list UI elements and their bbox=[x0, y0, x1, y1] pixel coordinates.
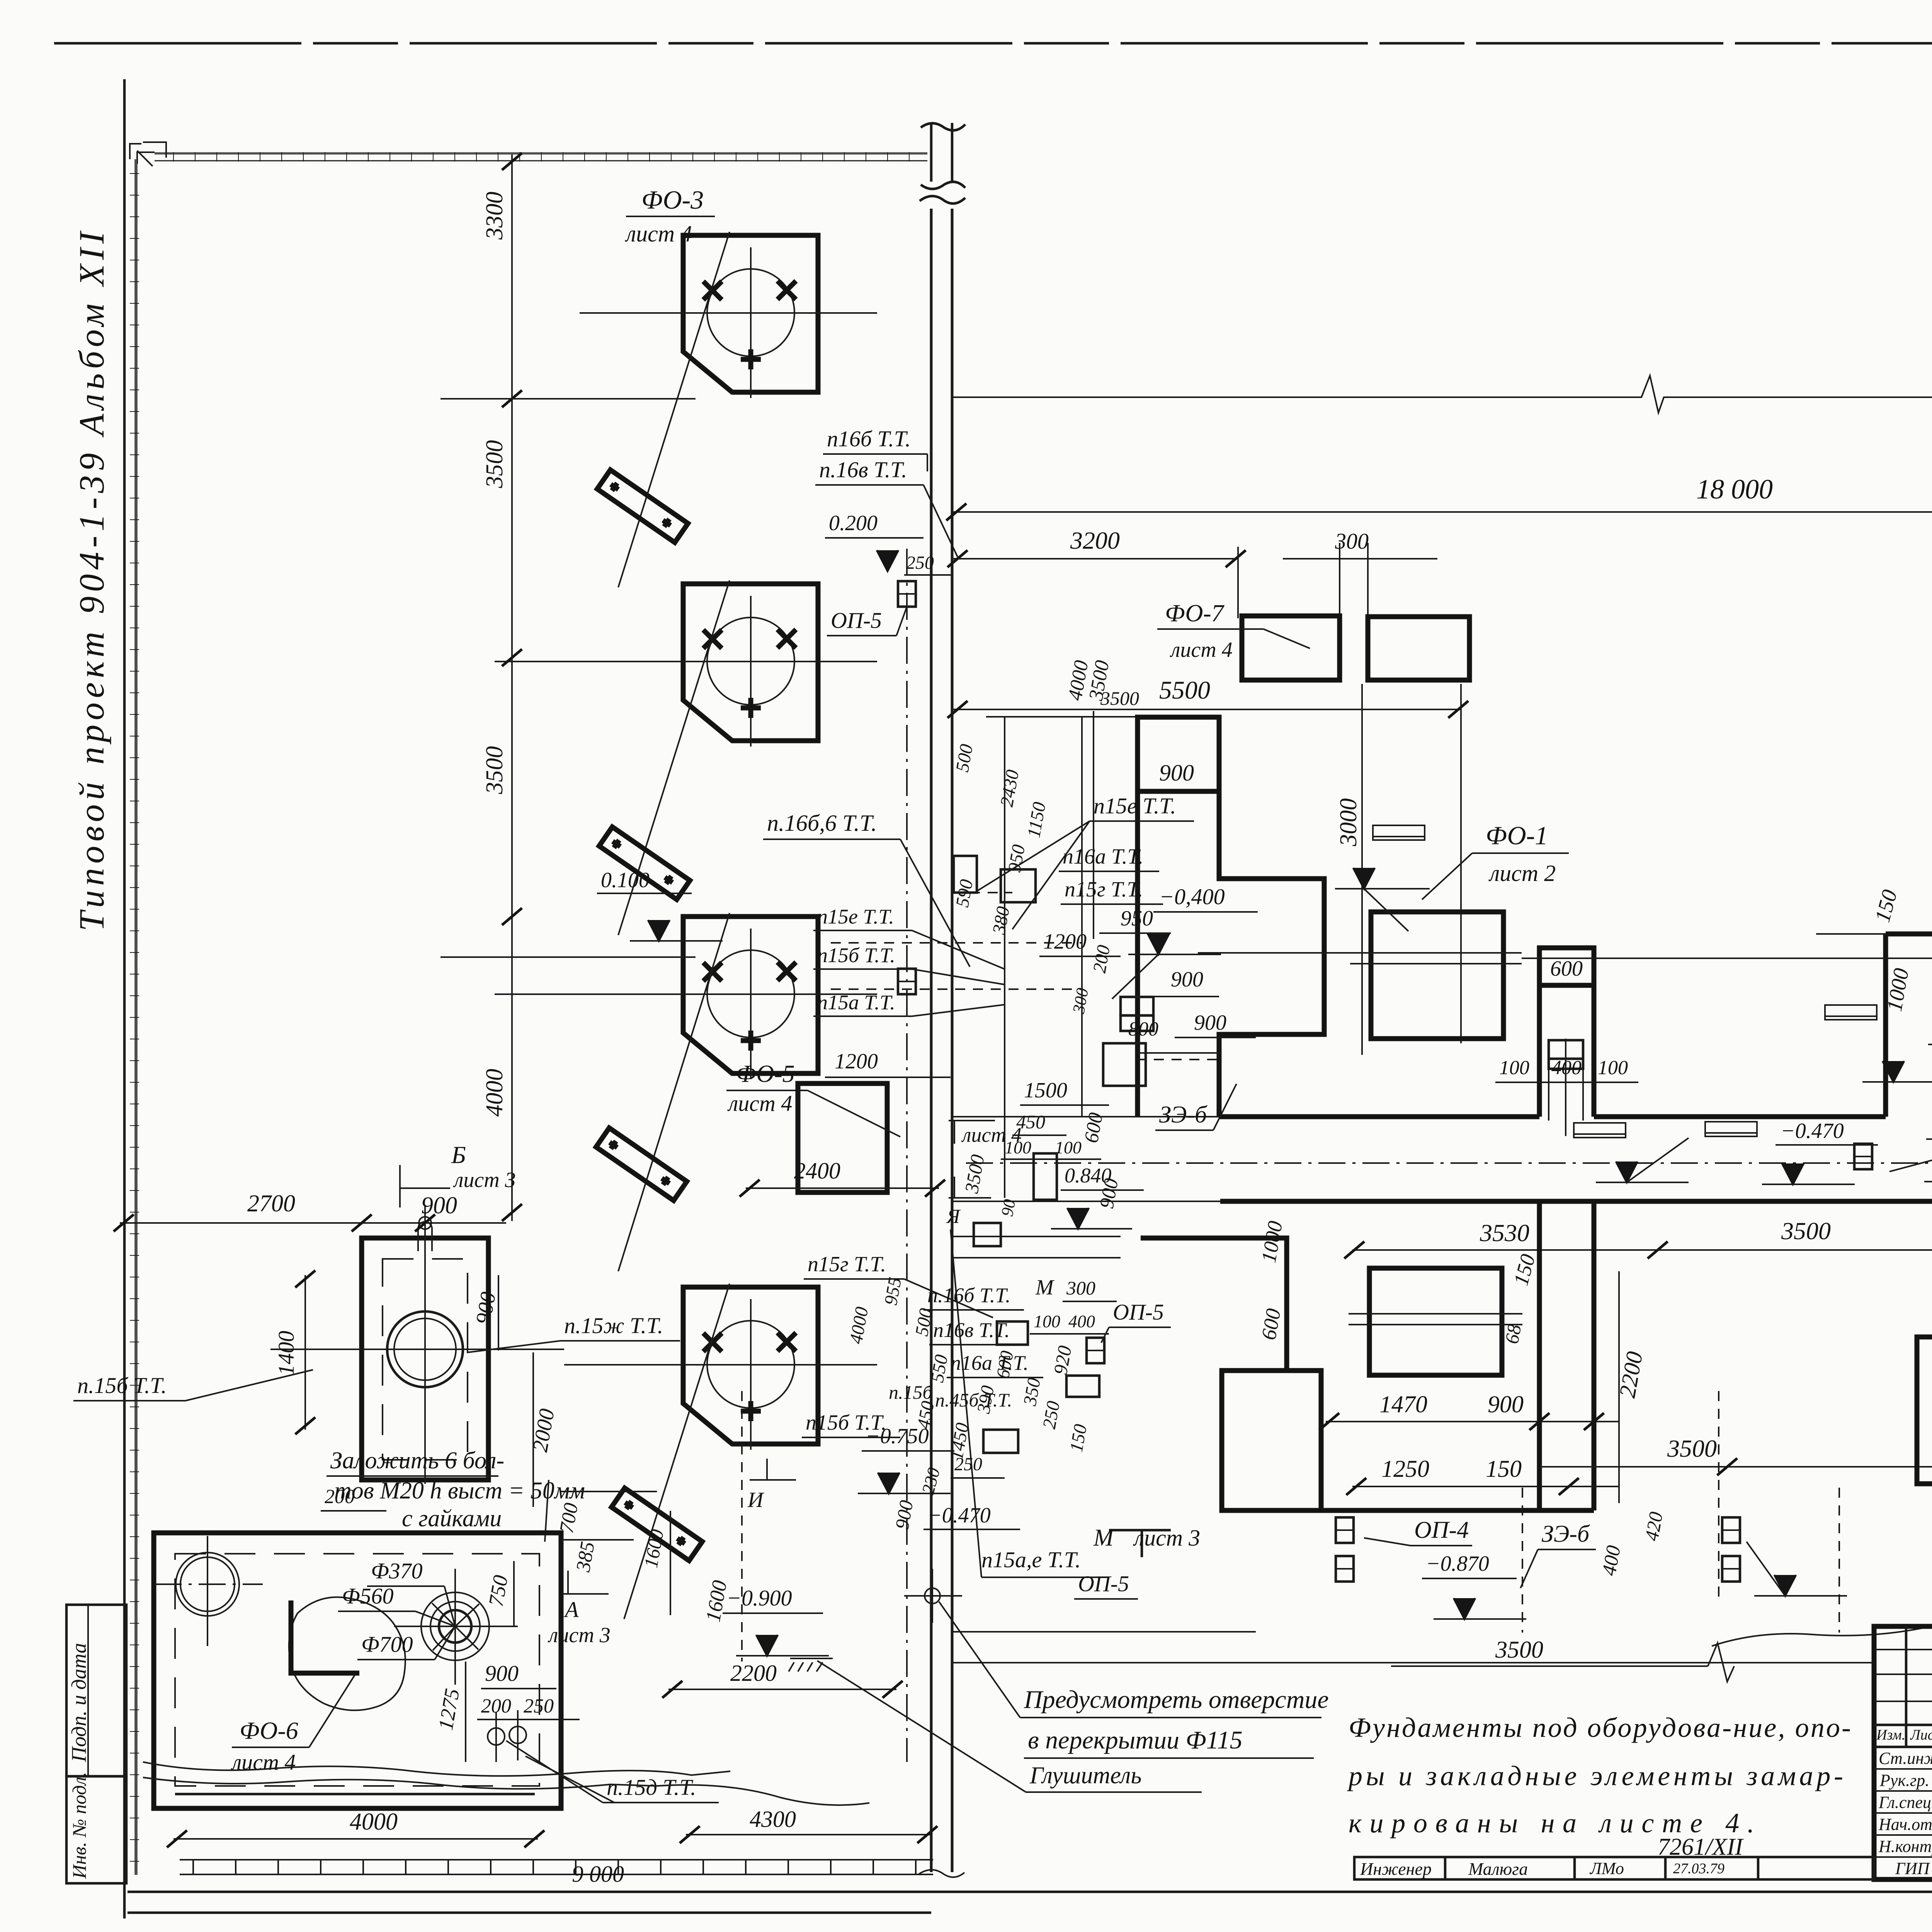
svg-text:ЛМо: ЛМо bbox=[1589, 1859, 1624, 1878]
corridor bottom thick line bbox=[1220, 1199, 1932, 1204]
central wall bottom squiggle bbox=[919, 1870, 964, 1877]
signature table outer bbox=[1874, 1626, 1932, 1879]
svg-text:−0.900: −0.900 bbox=[726, 1585, 792, 1611]
svg-text:400: 400 bbox=[1068, 1311, 1095, 1331]
svg-text:100: 100 bbox=[1034, 1311, 1060, 1331]
bolt pocket in block B bbox=[1549, 1040, 1583, 1069]
foundation rect bbox=[362, 1238, 488, 1480]
dim 1400 left bbox=[304, 1275, 306, 1430]
extension lines left pair bbox=[1339, 543, 1340, 618]
svg-text:4300: 4300 bbox=[750, 1806, 796, 1832]
svg-text:Подп. и дата: Подп. и дата bbox=[67, 1643, 90, 1762]
svg-text:2200: 2200 bbox=[730, 1660, 777, 1686]
svg-text:1250: 1250 bbox=[1381, 1456, 1429, 1482]
small circle hole F115 bbox=[925, 1588, 940, 1604]
header row bottom bbox=[1874, 1746, 1932, 1748]
neck top line bbox=[1886, 932, 1932, 937]
svg-text:−0.870: −0.870 bbox=[1426, 1552, 1489, 1576]
central wall left line bbox=[930, 209, 933, 1872]
dashed verticals bottom bbox=[1522, 1488, 1523, 1633]
М лист 3 bottom bbox=[1109, 1530, 1171, 1557]
lower left band lines bbox=[952, 1631, 1256, 1633]
svg-text:Ф560: Ф560 bbox=[342, 1583, 394, 1609]
svg-text:М: М bbox=[1093, 1525, 1115, 1551]
small rect in band bbox=[1001, 869, 1036, 902]
wall axis dash-dot line bbox=[906, 549, 908, 1762]
svg-text:п15е Т.Т.: п15е Т.Т. bbox=[817, 905, 894, 928]
svg-text:ФО-1: ФО-1 bbox=[1486, 821, 1548, 850]
tall block A outline bbox=[1138, 717, 1324, 1117]
svg-text:250: 250 bbox=[524, 1695, 554, 1717]
FO-1 centerlines bbox=[1198, 952, 1522, 954]
svg-text:250: 250 bbox=[954, 1454, 982, 1475]
anchor plate 4 bbox=[612, 1488, 702, 1561]
svg-text:в перекрытии Ф115: в перекрытии Ф115 bbox=[1028, 1726, 1243, 1754]
central wall break squiggle bbox=[920, 196, 965, 203]
svg-text:−0.750: −0.750 bbox=[866, 1424, 929, 1448]
dashed strip left half bbox=[1136, 1052, 1220, 1054]
svg-text:п15г Т.Т.: п15г Т.Т. bbox=[1065, 878, 1143, 901]
thin lines linking wall band to plan bbox=[952, 1116, 1219, 1117]
dim 2700 900 bbox=[120, 1222, 506, 1224]
svg-text:п15г Т.Т.: п15г Т.Т. bbox=[808, 1252, 886, 1276]
svg-text:Б: Б bbox=[451, 1141, 466, 1168]
svg-text:100: 100 bbox=[1055, 1138, 1082, 1157]
svg-text:900: 900 bbox=[485, 1661, 519, 1686]
svg-text:800: 800 bbox=[1128, 1018, 1158, 1040]
svg-text:п.16б Т.Т.: п.16б Т.Т. bbox=[927, 1284, 1010, 1307]
svg-text:150: 150 bbox=[1486, 1456, 1522, 1482]
900 dim lower inside bbox=[1124, 996, 1219, 997]
svg-text:100: 100 bbox=[1598, 1057, 1628, 1079]
svg-text:с гайками: с гайками bbox=[402, 1505, 502, 1532]
svg-text:п15а,е Т.Т.: п15а,е Т.Т. bbox=[981, 1547, 1081, 1572]
svg-text:5500: 5500 bbox=[1159, 676, 1210, 704]
svg-text:лист 4: лист 4 bbox=[625, 221, 692, 247]
svg-text:И: И bbox=[747, 1488, 765, 1512]
lower mirror FO rect bbox=[1369, 1268, 1502, 1375]
central wall right line bbox=[951, 209, 954, 1872]
svg-text:Инженер: Инженер bbox=[1360, 1859, 1432, 1879]
OP-5 square mid corridor bbox=[1854, 1144, 1872, 1169]
svg-text:п16а Т.Т.: п16а Т.Т. bbox=[1063, 845, 1143, 869]
svg-text:9 000: 9 000 bbox=[572, 1861, 624, 1887]
svg-text:ФО-3: ФО-3 bbox=[641, 185, 704, 214]
300 dim left bbox=[1283, 558, 1437, 560]
A list3 mark bbox=[562, 1571, 609, 1594]
dim 900 right vertical bbox=[498, 1275, 499, 1350]
svg-text:68: 68 bbox=[1501, 1323, 1526, 1345]
svg-text:п.15ж Т.Т.: п.15ж Т.Т. bbox=[564, 1313, 663, 1338]
anchor plate 1 bbox=[597, 470, 688, 543]
centerlines bbox=[270, 1349, 564, 1350]
sidebar box Подп. и дата bbox=[66, 1605, 126, 1776]
small bolt slot bbox=[1034, 1153, 1057, 1200]
svg-text:100: 100 bbox=[1499, 1057, 1529, 1079]
pentagon foundation #4 bbox=[564, 1284, 877, 1619]
svg-text:ОП-5: ОП-5 bbox=[831, 608, 882, 633]
central lower block lower bbox=[1917, 1337, 1932, 1484]
tall narrow block B bbox=[1539, 948, 1594, 1117]
svg-text:3500: 3500 bbox=[1667, 1435, 1717, 1462]
dashed axis lines crossing wall bbox=[831, 942, 1082, 944]
plate near block B top bbox=[1373, 825, 1425, 840]
3200 dim left bbox=[952, 558, 1238, 560]
svg-text:900: 900 bbox=[1194, 1011, 1226, 1035]
bolt on wall axis 2 bbox=[898, 969, 916, 994]
svg-text:ФО-6: ФО-6 bbox=[240, 1717, 298, 1744]
svg-text:ОП-5: ОП-5 bbox=[1113, 1299, 1164, 1325]
svg-text:3300: 3300 bbox=[481, 192, 508, 240]
bottom frame line left part bbox=[128, 1891, 1932, 1893]
svg-text:п.16б,6 Т.Т.: п.16б,6 Т.Т. bbox=[767, 810, 877, 836]
bottom second line left bbox=[128, 1912, 931, 1914]
anchor plate 2 bbox=[599, 827, 690, 900]
svg-text:Рук.гр.: Рук.гр. bbox=[1879, 1771, 1929, 1790]
lower band bottom thick bbox=[1222, 1508, 1539, 1513]
svg-text:лист 2: лист 2 bbox=[1488, 861, 1556, 886]
svg-text:300: 300 bbox=[1066, 1277, 1095, 1299]
bolt pair mid bbox=[1121, 997, 1153, 1015]
svg-text:лист 3: лист 3 bbox=[453, 1168, 516, 1192]
svg-text:3530: 3530 bbox=[1480, 1219, 1529, 1247]
svg-text:1200: 1200 bbox=[835, 1049, 878, 1073]
svg-text:27.03.79: 27.03.79 bbox=[1673, 1861, 1725, 1877]
thin top line bbox=[986, 716, 1221, 718]
outer square bbox=[154, 1533, 561, 1808]
svg-text:4000: 4000 bbox=[350, 1809, 398, 1835]
3500 lower dim bbox=[1539, 1466, 1932, 1468]
extra ext lines near wall band bbox=[1093, 711, 1094, 939]
svg-text:−0.470: −0.470 bbox=[1781, 1119, 1844, 1143]
svg-text:п16б Т.Т.: п16б Т.Т. bbox=[827, 426, 911, 451]
svg-text:900: 900 bbox=[1159, 760, 1194, 786]
svg-text:450: 450 bbox=[1016, 1111, 1045, 1133]
pentagon foundation #3 bbox=[495, 913, 877, 1271]
svg-text:п.15б Т.Т.: п.15б Т.Т. bbox=[77, 1373, 167, 1398]
inner dashed square bbox=[175, 1554, 539, 1786]
left step lines bbox=[1141, 1238, 1321, 1510]
corridor axis centerline bbox=[966, 1162, 1932, 1164]
svg-text:Ф700: Ф700 bbox=[361, 1632, 413, 1657]
18000 dimension line bbox=[952, 511, 1932, 513]
svg-text:п.45б Т.Т.: п.45б Т.Т. bbox=[935, 1389, 1012, 1411]
brick strip bottom left bbox=[180, 1859, 933, 1861]
svg-text:2700: 2700 bbox=[247, 1190, 295, 1217]
top-left circle bbox=[176, 1553, 239, 1616]
И mark left bbox=[750, 1459, 796, 1480]
svg-text:ОП-5: ОП-5 bbox=[1078, 1571, 1129, 1596]
axis line at 3300 bbox=[440, 398, 696, 400]
100 400 100 dims bbox=[1495, 1082, 1638, 1083]
Б section mark bbox=[400, 1165, 450, 1207]
svg-text:п.15д Т.Т.: п.15д Т.Т. bbox=[607, 1775, 696, 1800]
4000 dim bbox=[173, 1838, 538, 1840]
plates corridor bbox=[1574, 1123, 1626, 1138]
FO-7 rect left A bbox=[1242, 616, 1340, 680]
engineer strip bbox=[1354, 1857, 1874, 1879]
svg-text:М: М bbox=[1035, 1276, 1055, 1299]
dims 1470 900 bbox=[1326, 1421, 1619, 1422]
ground wavy line right bbox=[1712, 1593, 1932, 1646]
FO-1 big rect bbox=[1371, 912, 1503, 1039]
svg-text:п.15б: п.15б bbox=[889, 1381, 933, 1403]
svg-text:Инв. № подл.: Инв. № подл. bbox=[68, 1772, 90, 1879]
svg-text:3500: 3500 bbox=[1495, 1637, 1543, 1663]
svg-text:0.200: 0.200 bbox=[829, 511, 878, 535]
svg-text:600: 600 bbox=[1550, 957, 1583, 981]
wavy line left bbox=[143, 1762, 730, 1776]
wall corner piece bbox=[130, 144, 155, 164]
svg-text:900: 900 bbox=[1171, 968, 1203, 992]
svg-text:лист 4: лист 4 bbox=[231, 1750, 296, 1775]
svg-text:Изм.: Изм. bbox=[1876, 1727, 1905, 1743]
OP-5 bolt on wall axis bbox=[898, 581, 916, 607]
two small circles bbox=[488, 1728, 505, 1745]
top border dashed line bbox=[54, 42, 1932, 45]
svg-text:3500: 3500 bbox=[481, 746, 508, 794]
lower band small rects near wall bbox=[997, 1321, 1028, 1345]
svg-text:п15а Т.Т.: п15а Т.Т. bbox=[817, 991, 895, 1014]
3500 dims row bbox=[1352, 1249, 1932, 1251]
dashed pair left of wall bbox=[741, 1391, 743, 1662]
irregular blob bbox=[289, 1597, 405, 1710]
svg-text:1470: 1470 bbox=[1379, 1391, 1427, 1418]
bolt slot top bbox=[418, 1222, 432, 1251]
svg-text:ОП-4: ОП-4 bbox=[1414, 1517, 1469, 1543]
svg-text:лист 3: лист 3 bbox=[548, 1623, 611, 1647]
corridor top thick segments bbox=[1219, 1114, 1932, 1119]
svg-text:Нач.отд.: Нач.отд. bbox=[1878, 1815, 1932, 1834]
svg-text:Гл.спец.: Гл.спец. bbox=[1878, 1793, 1932, 1812]
svg-text:лист 4: лист 4 bbox=[727, 1091, 792, 1116]
svg-text:Я: Я bbox=[946, 1206, 961, 1228]
small square mid bbox=[1103, 1043, 1146, 1086]
svg-text:950: 950 bbox=[1121, 906, 1153, 930]
svg-text:А: А bbox=[563, 1597, 579, 1622]
svg-text:1500: 1500 bbox=[1024, 1078, 1067, 1102]
svg-text:900: 900 bbox=[421, 1192, 457, 1219]
svg-text:Ст.инж.: Ст.инж. bbox=[1879, 1749, 1932, 1768]
svg-text:100: 100 bbox=[1005, 1138, 1031, 1157]
svg-text:Ф370: Ф370 bbox=[371, 1558, 423, 1583]
pentagon foundation FO-3 #1 bbox=[580, 232, 877, 587]
sidebar box Инв. № подл. bbox=[66, 1776, 126, 1883]
vertical extension 3000 left bbox=[1361, 684, 1363, 1055]
svg-text:лист 3: лист 3 bbox=[1133, 1525, 1200, 1551]
svg-text:Заложить 6 бол-: Заложить 6 бол- bbox=[330, 1447, 504, 1474]
bolt circle group bbox=[421, 1592, 489, 1660]
svg-text:ФО-5: ФО-5 bbox=[736, 1060, 795, 1087]
Я mark bbox=[949, 1177, 991, 1198]
svg-text:0.100: 0.100 bbox=[601, 868, 650, 892]
top exterior wall (hatched) bbox=[155, 152, 927, 162]
svg-text:Глушитель: Глушитель bbox=[1029, 1762, 1142, 1789]
central wall column symbol at top bbox=[921, 123, 965, 189]
svg-text:18 000: 18 000 bbox=[1696, 474, 1773, 505]
svg-text:1400: 1400 bbox=[274, 1331, 299, 1376]
svg-text:4000: 4000 bbox=[481, 1069, 508, 1117]
svg-text:ФО-7: ФО-7 bbox=[1165, 599, 1225, 627]
900 dim inside block A bbox=[1138, 789, 1219, 794]
svg-text:−0.470: −0.470 bbox=[927, 1503, 991, 1527]
thick L inside blob bbox=[291, 1600, 359, 1673]
svg-text:ЗЭ-б: ЗЭ-б bbox=[1542, 1521, 1590, 1547]
svg-text:ры и закладные элементы за: ры и закладные элементы замар- bbox=[1347, 1760, 1843, 1791]
svg-text:лист 4: лист 4 bbox=[1170, 638, 1233, 662]
svg-text:2400: 2400 bbox=[794, 1158, 840, 1184]
big pipe circle bbox=[387, 1311, 463, 1387]
dims 1250 150 bbox=[1352, 1486, 1619, 1487]
thin row lines top section bbox=[1874, 1649, 1932, 1650]
svg-text:Предусмотреть отверстие: Предусмотреть отверстие bbox=[1024, 1685, 1329, 1714]
svg-text:3500: 3500 bbox=[481, 440, 508, 488]
svg-text:900: 900 bbox=[1488, 1391, 1524, 1418]
svg-text:п.16в Т.Т.: п.16в Т.Т. bbox=[819, 457, 907, 482]
svg-text:п15е Т.Т.: п15е Т.Т. bbox=[1094, 793, 1176, 818]
pentagon foundation #2 bbox=[495, 580, 877, 935]
anchor plate 3 bbox=[596, 1128, 687, 1201]
svg-text:ГИП: ГИП bbox=[1895, 1859, 1930, 1878]
svg-text:1200: 1200 bbox=[1043, 930, 1087, 954]
svg-text:Н.контр.: Н.контр. bbox=[1878, 1837, 1932, 1856]
svg-text:Малюга: Малюга bbox=[1468, 1859, 1528, 1879]
svg-text:7261/ХII: 7261/ХII bbox=[1658, 1834, 1744, 1860]
svg-text:Фундаменты под оборудова-н: Фундаменты под оборудова-ние, опо- bbox=[1349, 1712, 1851, 1743]
small corner bracket top-left bbox=[137, 142, 166, 166]
svg-text:ЗЭ-б: ЗЭ-б bbox=[1159, 1102, 1207, 1128]
svg-text:250: 250 bbox=[906, 553, 934, 573]
long horizontal centerline bbox=[1522, 957, 1932, 959]
FO-7 rect left B bbox=[1368, 617, 1469, 680]
lower narrow block B2 bbox=[1539, 1201, 1594, 1510]
left sheet border bbox=[123, 79, 126, 1918]
svg-text:−0,400: −0,400 bbox=[1159, 884, 1225, 909]
col lines bbox=[1905, 1626, 1908, 1747]
left exterior wall (hatched) bbox=[130, 159, 139, 1875]
list 4 marker right of FO-5 bbox=[949, 1121, 995, 1144]
svg-text:3200: 3200 bbox=[1070, 527, 1120, 554]
3500 bottom dim with break bbox=[1391, 1665, 1708, 1667]
svg-text:3000: 3000 bbox=[1335, 798, 1362, 847]
svg-text:−0.600: −0.600 bbox=[1930, 1113, 1932, 1137]
inner dashed rect bbox=[383, 1259, 468, 1460]
inner bottom band bbox=[175, 1793, 535, 1796]
interior long line bbox=[952, 376, 1932, 413]
content row lines bbox=[1874, 1768, 1932, 1770]
svg-text:3500: 3500 bbox=[1781, 1217, 1831, 1245]
svg-text:п15б Т.Т.: п15б Т.Т. bbox=[817, 944, 895, 967]
svg-text:Лист: Лист bbox=[1910, 1727, 1932, 1743]
5500 dim left bbox=[952, 709, 1461, 710]
left dim chain vertical bbox=[511, 155, 513, 1221]
